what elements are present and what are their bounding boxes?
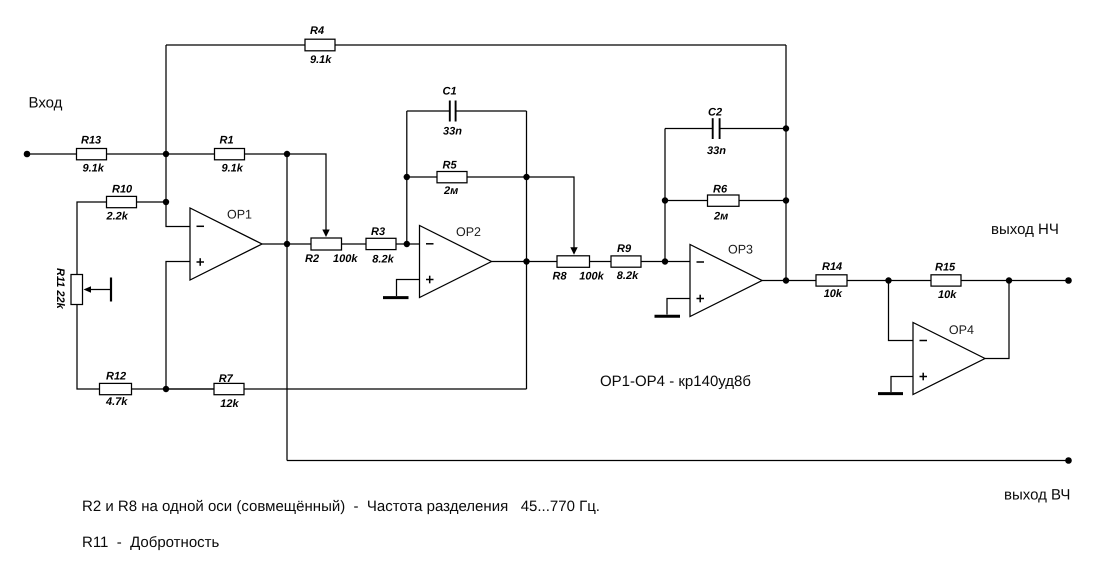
svg-text:R11 22k: R11 22k: [54, 268, 66, 310]
svg-text:8.2k: 8.2k: [617, 270, 639, 282]
svg-text:C1: C1: [443, 86, 457, 98]
svg-text:33n: 33n: [443, 126, 462, 138]
svg-text:4.7k: 4.7k: [105, 396, 128, 408]
svg-text:9.1k: 9.1k: [83, 163, 105, 175]
resistor R4: [305, 25, 335, 66]
resistor R12: [100, 371, 132, 409]
resistor R5: [437, 160, 467, 198]
node junction R3 right: [404, 241, 410, 247]
wire R12 right: [132, 388, 215, 390]
node junction OP1 output: [284, 241, 290, 247]
wire OP2 column vertical: [526, 111, 528, 389]
resistor R3: [366, 226, 396, 266]
svg-text:R5: R5: [443, 160, 458, 172]
wire R10 left and down: [77, 202, 107, 275]
wire bottom HF row: [287, 460, 1069, 462]
node junction R10: [163, 199, 169, 205]
svg-text:R13: R13: [81, 135, 101, 147]
node junction R1 right: [284, 151, 290, 157]
wire C1 top right: [456, 110, 527, 112]
svg-text:2м: 2м: [443, 185, 458, 197]
op-amp OP4: [913, 323, 985, 395]
svg-text:8.2k: 8.2k: [372, 254, 394, 266]
node junction R6 left: [662, 197, 668, 203]
node junction R15 right: [1006, 277, 1012, 283]
svg-text:100k: 100k: [333, 253, 358, 265]
svg-text:10k: 10k: [938, 289, 957, 301]
ground OP3: [655, 299, 691, 317]
resistor R9: [611, 243, 641, 282]
svg-text:OP1-OP4 - кр140уд8б: OP1-OP4 - кр140уд8б: [600, 373, 751, 390]
svg-text:C2: C2: [708, 107, 722, 119]
svg-text:R4: R4: [310, 25, 324, 37]
wire OP3 output: [762, 280, 816, 282]
ground OP2: [383, 280, 420, 298]
wire R10 right: [137, 201, 167, 203]
wire C1 left vertical: [406, 111, 408, 244]
svg-text:OP1: OP1: [227, 207, 252, 221]
wire R9 to OP3 minus: [641, 261, 690, 263]
svg-text:R8: R8: [553, 271, 568, 283]
wire OP1 plus down to R12 row: [166, 262, 190, 390]
svg-text:R3: R3: [371, 226, 385, 238]
resistor R14: [816, 261, 847, 300]
wire OP4 minus feedback: [889, 281, 914, 341]
svg-text:Вход: Вход: [29, 95, 63, 112]
capacitor C1: [443, 86, 463, 138]
svg-text:OP4: OP4: [949, 323, 974, 337]
svg-text:R1: R1: [220, 135, 234, 147]
node input terminal: [24, 151, 31, 158]
svg-text:12k: 12k: [220, 398, 239, 410]
wire R8 to R9: [590, 261, 612, 263]
svg-text:R10: R10: [112, 184, 133, 196]
node junction R14 right: [885, 277, 891, 283]
wire top row right of R4: [335, 44, 786, 46]
ground OP4: [878, 377, 913, 394]
svg-text:R7: R7: [219, 373, 234, 385]
potentiometer R2: [305, 230, 358, 266]
resistor R7: [214, 373, 244, 410]
wire C2 top left: [665, 128, 713, 130]
svg-text:R9: R9: [617, 243, 632, 255]
potentiometer R11: [54, 268, 111, 310]
node LF output terminal: [1065, 277, 1072, 284]
node junction R13-R1: [163, 151, 169, 157]
svg-text:2.2k: 2.2k: [106, 211, 129, 223]
node junction OP2 output: [523, 258, 529, 264]
wire feed to R8 wiper: [527, 177, 575, 248]
wire OP4 output loop: [985, 281, 1009, 359]
wire input: [27, 153, 77, 155]
svg-text:9.1k: 9.1k: [222, 163, 244, 175]
op-amp OP2: [420, 225, 492, 298]
svg-text:OP2: OP2: [456, 225, 481, 239]
node junction R5 left: [404, 174, 410, 180]
node junction R6 right: [783, 197, 789, 203]
svg-text:R11 - Добротность: R11 - Добротность: [82, 534, 220, 551]
wire top row left of R4: [166, 44, 305, 46]
wire C2 top right: [720, 128, 787, 130]
wire column x287 vertical: [286, 154, 288, 461]
node junction OP3 output: [783, 277, 789, 283]
resistor R1: [215, 135, 245, 175]
op-amp OP1: [190, 207, 262, 280]
wire right column x786: [785, 45, 787, 281]
node junction C2 right: [783, 125, 789, 131]
svg-text:R2 и R8 на одной оси (совмещён: R2 и R8 на одной оси (совмещённый) - Час…: [82, 498, 600, 515]
wire R14 to R15: [847, 280, 931, 282]
svg-text:R14: R14: [822, 261, 842, 273]
svg-text:OP3: OP3: [728, 243, 753, 257]
resistor R6: [708, 184, 740, 223]
resistor R15: [931, 262, 961, 302]
wire R7 right to OP2 output column: [244, 388, 527, 390]
svg-text:выход ВЧ: выход ВЧ: [1004, 486, 1070, 503]
wire R3 to OP2 minus: [396, 243, 420, 245]
wire OP1 output: [262, 243, 287, 245]
resistor R13: [77, 135, 107, 175]
svg-text:9.1k: 9.1k: [310, 54, 332, 66]
svg-text:R15: R15: [935, 262, 956, 274]
svg-text:2м: 2м: [713, 211, 728, 223]
wire R7 left: [166, 388, 214, 390]
wire R11 bottom to R12: [77, 305, 100, 390]
svg-text:10k: 10k: [824, 288, 843, 300]
potentiometer R8: [553, 247, 605, 282]
op-amp OP3: [690, 243, 762, 317]
wire vertical to top row: [165, 45, 167, 154]
node junction R9 right: [662, 258, 668, 264]
wire junction column to OP1 minus: [166, 154, 190, 227]
wire C2 left vertical: [664, 129, 666, 262]
wire R15 right to LF terminal: [961, 280, 1069, 282]
wire R6 right: [739, 200, 786, 202]
svg-text:R6: R6: [713, 184, 728, 196]
svg-text:100k: 100k: [579, 271, 604, 283]
svg-text:выход НЧ: выход НЧ: [991, 221, 1059, 238]
wire R2 to R3: [342, 243, 367, 245]
node junction R12-R7: [163, 386, 169, 392]
wire R5 right: [467, 176, 527, 178]
wire C1 top left: [407, 110, 450, 112]
wire OP1 out to R2: [287, 243, 311, 245]
wire R1 right: [245, 153, 288, 155]
wire feed to R2 wiper: [287, 154, 326, 233]
node junction R5 right: [523, 174, 529, 180]
svg-text:33n: 33n: [707, 145, 726, 157]
svg-text:R12: R12: [106, 371, 126, 383]
capacitor C2: [707, 107, 726, 158]
wire R6 left: [665, 200, 708, 202]
wire OP2 output: [492, 261, 558, 263]
svg-text:R2: R2: [305, 253, 319, 265]
wire R5 left: [407, 176, 437, 178]
wire R13 to junction: [107, 153, 215, 155]
resistor R10: [106, 184, 137, 223]
node HF output terminal: [1065, 457, 1072, 464]
